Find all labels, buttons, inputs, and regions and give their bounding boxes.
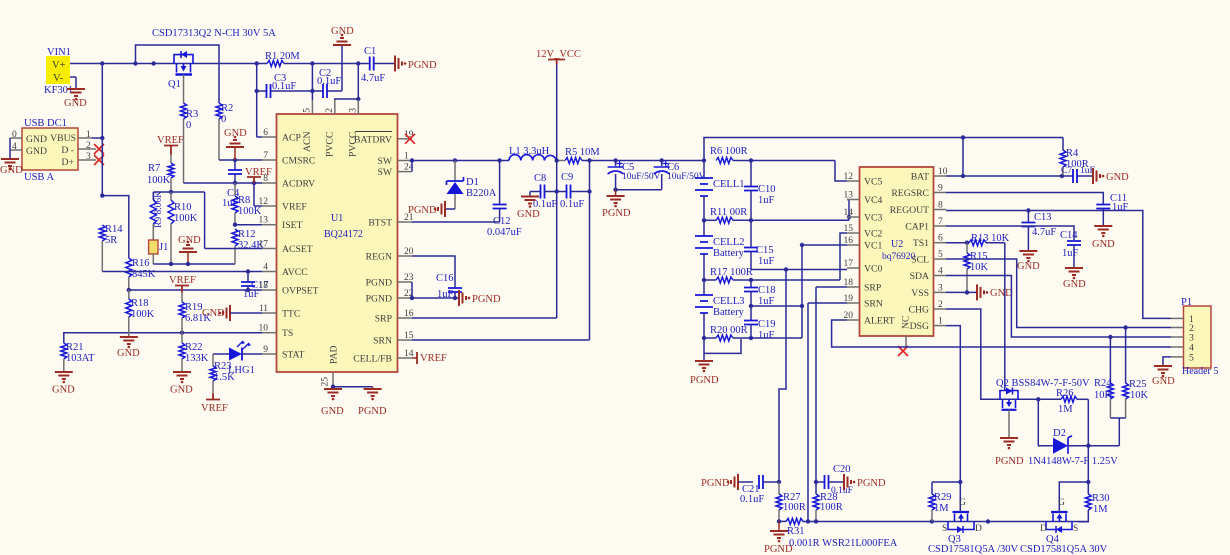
svg-text:R9 8.06K: R9 8.06K xyxy=(154,191,164,228)
wire SCL to header xyxy=(946,259,1171,330)
svg-text:CSD17581Q5A 30V: CSD17581Q5A 30V xyxy=(1020,544,1108,555)
no-connect X on USB pin3 xyxy=(94,155,104,165)
svg-text:GND: GND xyxy=(52,385,75,396)
svg-text:VREF: VREF xyxy=(157,135,184,146)
svg-text:12V_VCC: 12V_VCC xyxy=(536,49,581,60)
svg-text:ACSET: ACSET xyxy=(282,244,313,255)
svg-text:GND: GND xyxy=(1017,261,1040,272)
svg-text:R22: R22 xyxy=(185,342,203,353)
svg-text:SRP: SRP xyxy=(375,314,392,325)
wire D2 anode feed xyxy=(1038,399,1053,445)
power GND at C7 xyxy=(1093,168,1129,184)
power VREF below R23 xyxy=(201,394,228,415)
svg-text:1M: 1M xyxy=(934,503,949,514)
svg-text:103AT: 103AT xyxy=(66,353,95,364)
wire VC0 line from C15 xyxy=(751,267,847,271)
wire CMSRC net from R2 xyxy=(219,158,262,162)
svg-text:5R: 5R xyxy=(105,235,117,246)
transistor Q1 CSD17313Q2 xyxy=(152,28,276,90)
capacitor C10 xyxy=(744,161,776,221)
svg-text:0.1uF: 0.1uF xyxy=(560,199,584,210)
svg-text:5: 5 xyxy=(938,250,943,260)
svg-text:VIN1: VIN1 xyxy=(47,47,71,58)
resistor R19 xyxy=(179,293,211,333)
svg-text:R16: R16 xyxy=(132,258,150,269)
svg-text:3: 3 xyxy=(938,283,943,293)
svg-text:R4: R4 xyxy=(1066,148,1079,159)
svg-text:VREF: VREF xyxy=(169,275,196,286)
svg-text:PGND: PGND xyxy=(472,294,501,305)
svg-text:R19: R19 xyxy=(185,302,203,313)
capacitor C14 xyxy=(1060,230,1081,267)
resistor R4 100R xyxy=(1060,138,1089,177)
inductor L1 3.3uH xyxy=(509,146,565,161)
power 12V_VCC xyxy=(536,49,581,65)
svg-text:100R: 100R xyxy=(820,502,843,513)
ground GND at C8 xyxy=(517,192,540,221)
wire R7 node xyxy=(153,190,204,249)
svg-text:133K: 133K xyxy=(185,353,209,364)
power VREF above R19 xyxy=(169,275,196,293)
svg-text:SRN: SRN xyxy=(373,336,392,347)
svg-text:KF301: KF301 xyxy=(44,85,73,96)
svg-text:CSD17313Q2 N-CH 30V 5A: CSD17313Q2 N-CH 30V 5A xyxy=(152,28,276,39)
svg-text:1: 1 xyxy=(404,152,409,162)
svg-text:GND: GND xyxy=(517,209,540,220)
wire divider ground bus xyxy=(153,262,235,266)
svg-text:R8: R8 xyxy=(238,195,250,206)
svg-text:R23: R23 xyxy=(214,361,232,372)
svg-text:ACDRV: ACDRV xyxy=(282,179,315,190)
svg-text:10K: 10K xyxy=(1094,390,1113,401)
svg-text:23: 23 xyxy=(404,273,414,283)
svg-text:9: 9 xyxy=(263,345,268,355)
svg-text:J1: J1 xyxy=(159,242,168,253)
svg-text:USB A: USB A xyxy=(24,172,54,183)
svg-text:6.81K: 6.81K xyxy=(185,313,211,324)
capacitor C18 xyxy=(744,280,776,307)
resistor R3 xyxy=(181,75,199,184)
wire VBUS to rail and R14 xyxy=(92,64,105,198)
svg-text:GND: GND xyxy=(1063,279,1086,290)
wire ACDRV net from R3 xyxy=(184,181,263,185)
svg-text:VC5: VC5 xyxy=(864,177,882,188)
wire R13 to Q2 column xyxy=(1004,243,1006,391)
capacitor C13 xyxy=(1021,211,1056,251)
ground GND at USB xyxy=(0,138,23,176)
capacitor C6 10uF/50V xyxy=(654,161,706,190)
svg-text:D2: D2 xyxy=(1053,428,1066,439)
resistor R13 10K xyxy=(969,233,1010,246)
wire CAP1 to C14 xyxy=(946,226,1074,240)
overline on BATDRV pin name xyxy=(355,131,392,133)
ground GND at U1 PAD xyxy=(321,385,344,418)
svg-text:VREF: VREF xyxy=(420,353,447,364)
no-connect X on U2 NC xyxy=(898,346,908,356)
svg-text:CELL2: CELL2 xyxy=(713,237,745,248)
svg-text:C16: C16 xyxy=(436,273,454,284)
svg-text:D1: D1 xyxy=(466,177,479,188)
wire REGN to C16 xyxy=(412,256,455,287)
wire Q2 drain to R26 xyxy=(1036,397,1040,401)
svg-text:5: 5 xyxy=(302,108,312,113)
svg-text:PGND: PGND xyxy=(366,294,392,305)
svg-text:ACN: ACN xyxy=(302,132,313,152)
wire battery top rail xyxy=(702,135,1063,162)
wire C5-C6 ground link xyxy=(613,188,661,192)
wire REGSRC to C11 xyxy=(946,193,1103,205)
svg-text:R29: R29 xyxy=(934,492,952,503)
wire VC4 VC3 feed xyxy=(847,200,851,221)
resistor R22 xyxy=(179,333,209,371)
transistor Q2 BSS84W xyxy=(996,378,1090,410)
svg-text:GND: GND xyxy=(64,98,87,109)
svg-text:D: D xyxy=(1040,524,1047,534)
svg-text:ISET: ISET xyxy=(282,220,303,231)
svg-text:G: G xyxy=(959,498,966,508)
svg-text:7: 7 xyxy=(938,217,943,227)
resistor R18 xyxy=(126,290,155,336)
wire SRN down xyxy=(806,303,847,524)
svg-text:2: 2 xyxy=(325,108,335,113)
svg-text:VSS: VSS xyxy=(911,288,929,299)
svg-text:STAT: STAT xyxy=(282,350,304,361)
svg-text:0.047uF: 0.047uF xyxy=(487,227,522,238)
svg-text:PGND: PGND xyxy=(701,478,730,489)
svg-text:R12: R12 xyxy=(238,229,256,240)
ground GND below C14 xyxy=(1063,268,1086,290)
capacitor C9 xyxy=(560,172,592,210)
transistor Q3 CSD17581Q5A xyxy=(928,482,1019,555)
svg-text:R14: R14 xyxy=(105,224,123,235)
svg-text:GND: GND xyxy=(990,288,1013,299)
power VREF above R7 xyxy=(157,135,184,155)
power PGND at U1 PAD xyxy=(333,387,387,417)
connector VIN1 (KF301) xyxy=(44,47,73,96)
wire TS1 net xyxy=(946,241,969,245)
wire PVCC pin5 column xyxy=(310,61,314,100)
svg-text:CAP1: CAP1 xyxy=(905,222,929,233)
svg-text:R20 00R: R20 00R xyxy=(710,325,748,336)
svg-text:6: 6 xyxy=(263,128,268,138)
svg-text:VC1: VC1 xyxy=(864,241,882,252)
svg-text:R10: R10 xyxy=(174,202,192,213)
svg-text:CELL/FB: CELL/FB xyxy=(353,354,392,365)
svg-text:1M: 1M xyxy=(1058,404,1073,415)
svg-text:17: 17 xyxy=(259,240,269,250)
capacitor C8 xyxy=(530,173,567,210)
capacitor C15 xyxy=(744,220,775,269)
svg-text:V-: V- xyxy=(53,73,64,84)
resistor R7 xyxy=(147,155,174,193)
ground GND below C13 xyxy=(1017,251,1040,272)
svg-text:PGND: PGND xyxy=(602,208,631,219)
svg-text:D+: D+ xyxy=(62,157,74,168)
svg-text:PGND: PGND xyxy=(764,544,793,555)
svg-text:100K: 100K xyxy=(174,213,198,224)
svg-text:CHG: CHG xyxy=(909,305,929,316)
svg-text:100R: 100R xyxy=(783,502,806,513)
svg-text:VREF: VREF xyxy=(201,403,228,414)
svg-text:P1: P1 xyxy=(1181,297,1192,308)
svg-text:S: S xyxy=(1073,524,1078,534)
svg-text:R18: R18 xyxy=(131,298,149,309)
resistor R8 xyxy=(232,183,262,225)
svg-text:C1: C1 xyxy=(364,46,376,57)
svg-text:0: 0 xyxy=(186,120,191,131)
svg-text:R25: R25 xyxy=(1129,379,1147,390)
svg-text:PGND: PGND xyxy=(995,456,1024,467)
wire ALERT to header pin4 xyxy=(832,320,1171,347)
resistor R2 xyxy=(216,103,233,160)
svg-text:REGN: REGN xyxy=(366,252,392,263)
wire SRP to R28 xyxy=(814,287,847,494)
resistor R1 20M xyxy=(265,51,358,67)
wire top loop to Q1 drain xyxy=(136,45,220,103)
connector P1 Header 5 xyxy=(1171,297,1218,377)
capacitor C4 xyxy=(222,160,242,209)
svg-text:BAT: BAT xyxy=(911,172,929,183)
power PGND at C16 xyxy=(459,290,501,306)
power PGND at Q2 gate xyxy=(995,410,1024,467)
ground GND at VIN1 xyxy=(64,77,87,109)
svg-text:PVCC: PVCC xyxy=(325,132,336,157)
power PGND below battery xyxy=(690,361,719,386)
capacitor C7 xyxy=(1061,166,1095,183)
svg-text:SW: SW xyxy=(377,167,392,178)
wire OVPSET net xyxy=(127,288,262,292)
svg-text:S: S xyxy=(942,524,947,534)
svg-text:VBUS: VBUS xyxy=(50,133,76,144)
svg-text:R3: R3 xyxy=(186,109,198,120)
svg-text:0.001R WSR21L000FEA: 0.001R WSR21L000FEA xyxy=(789,538,898,549)
svg-text:4.7uF: 4.7uF xyxy=(361,73,385,84)
wire battery bottom jog xyxy=(704,338,741,360)
svg-text:USB DC1: USB DC1 xyxy=(24,118,67,129)
svg-text:B220A: B220A xyxy=(466,188,497,199)
power GND sideways at TTC xyxy=(202,305,262,321)
svg-text:14: 14 xyxy=(844,208,854,218)
svg-text:OVPSET: OVPSET xyxy=(282,286,319,297)
capacitor C19 xyxy=(744,306,776,341)
svg-text:CELL3: CELL3 xyxy=(713,296,745,307)
svg-text:GND: GND xyxy=(0,165,23,176)
svg-text:4: 4 xyxy=(938,267,943,277)
ground GND below R18 xyxy=(117,337,140,359)
svg-text:12: 12 xyxy=(844,172,854,182)
svg-text:PGND: PGND xyxy=(408,60,437,71)
svg-text:SCL: SCL xyxy=(911,255,929,266)
wire VSS net xyxy=(946,290,976,294)
svg-text:1uF: 1uF xyxy=(758,195,775,206)
battery CELL2 xyxy=(695,236,745,295)
wire to R16 top xyxy=(102,196,129,258)
wire PGND pins 22-23 xyxy=(410,282,458,300)
resistor R5 10M xyxy=(565,147,704,164)
resistor R25 10K xyxy=(1123,328,1149,419)
svg-text:GND: GND xyxy=(1106,172,1129,183)
wire PVCC pins 2-3 jog xyxy=(335,61,361,101)
wire ISET net xyxy=(233,223,262,227)
resistor R9 xyxy=(150,191,164,240)
svg-text:17: 17 xyxy=(844,259,854,269)
svg-text:CMSRC: CMSRC xyxy=(282,156,315,167)
resistor R28 100R xyxy=(813,492,843,521)
capacitor C21 xyxy=(740,475,779,505)
svg-text:0.1uF: 0.1uF xyxy=(740,494,764,505)
svg-text:10K: 10K xyxy=(1130,390,1149,401)
svg-text:VC2: VC2 xyxy=(864,229,882,240)
svg-text:G: G xyxy=(1058,498,1065,508)
resistor R30 1M xyxy=(1078,482,1110,522)
svg-text:TS: TS xyxy=(282,328,293,339)
wire R26 to D2 cathode node xyxy=(1068,399,1119,448)
svg-text:C20: C20 xyxy=(833,464,851,475)
resistor R21 xyxy=(61,342,95,371)
svg-text:10: 10 xyxy=(259,324,269,334)
resistor R12 xyxy=(232,229,264,264)
resistor R16 xyxy=(126,258,156,290)
resistor R29 1M xyxy=(929,480,963,522)
wire C18-C19 mid tap xyxy=(749,304,804,308)
svg-text:0: 0 xyxy=(221,114,226,125)
capacitor C20 xyxy=(816,464,853,496)
svg-text:TTC: TTC xyxy=(282,309,300,320)
resistor R6 100R xyxy=(710,146,835,164)
power PGND below C5 xyxy=(602,190,631,219)
capacitor C2 xyxy=(312,68,342,98)
svg-text:11: 11 xyxy=(259,304,268,314)
svg-text:GND: GND xyxy=(1152,376,1175,387)
ground GND below R21 xyxy=(52,372,75,396)
capacitor C17 xyxy=(241,272,269,301)
svg-text:1uF: 1uF xyxy=(1112,202,1129,213)
no-connect X on BATDRV xyxy=(405,134,415,144)
op-amp U2 bq76920 monitor IC xyxy=(844,167,948,348)
svg-text:Battery: Battery xyxy=(713,307,745,318)
svg-text:REGOUT: REGOUT xyxy=(890,205,929,216)
wire V+ rail xyxy=(70,61,267,65)
capacitor C11 xyxy=(1096,193,1128,225)
svg-text:10uF/50V: 10uF/50V xyxy=(667,172,706,182)
wire R17 line xyxy=(702,267,840,283)
diode D2 1N4148W xyxy=(1028,428,1118,467)
svg-text:C9: C9 xyxy=(561,172,573,183)
svg-text:NC: NC xyxy=(902,316,912,329)
svg-text:D -: D - xyxy=(61,145,74,156)
ground GND at R10 bus xyxy=(178,235,201,264)
svg-text:TS1: TS1 xyxy=(913,238,929,249)
svg-text:SDA: SDA xyxy=(910,271,929,282)
svg-text:8: 8 xyxy=(938,201,943,211)
svg-text:BATDRV: BATDRV xyxy=(354,134,392,145)
svg-text:18: 18 xyxy=(259,281,269,291)
svg-text:Header 5: Header 5 xyxy=(1182,366,1218,377)
svg-text:R17 100R: R17 100R xyxy=(710,267,753,278)
svg-text:PAD: PAD xyxy=(329,346,340,365)
svg-text:GND: GND xyxy=(26,134,47,145)
ground GND below C11 xyxy=(1092,226,1115,250)
wire R20 line xyxy=(702,325,802,341)
svg-text:GND: GND xyxy=(321,406,344,417)
wire 12V_VCC column to SRP xyxy=(555,65,559,319)
svg-text:100K: 100K xyxy=(147,175,171,186)
svg-text:SRN: SRN xyxy=(864,299,883,310)
svg-text:C8: C8 xyxy=(534,173,546,184)
svg-text:6: 6 xyxy=(938,234,943,244)
svg-text:GND: GND xyxy=(26,146,47,157)
svg-text:1M: 1M xyxy=(1093,504,1108,515)
svg-text:R15: R15 xyxy=(970,251,988,262)
svg-text:25: 25 xyxy=(321,377,331,387)
svg-text:PVCC: PVCC xyxy=(348,132,359,157)
svg-text:SRP: SRP xyxy=(864,283,881,294)
svg-text:1N4148W-7-F 1.25V: 1N4148W-7-F 1.25V xyxy=(1028,456,1118,467)
svg-text:4: 4 xyxy=(263,263,268,273)
connector USB DC1 xyxy=(10,118,96,183)
transistor Q4 CSD17581Q5A xyxy=(1020,498,1108,555)
power PGND right of C1 xyxy=(395,56,437,72)
svg-text:REGSRC: REGSRC xyxy=(891,188,929,199)
ground GND above C4 xyxy=(224,128,247,160)
diode D1 B220A xyxy=(447,161,497,210)
svg-text:1uF: 1uF xyxy=(1062,248,1079,259)
resistor R14 xyxy=(99,224,123,272)
svg-text:SW: SW xyxy=(377,156,392,167)
svg-text:AVCC: AVCC xyxy=(282,267,308,278)
wire VC2 feed xyxy=(840,233,847,280)
wire CHG to Q2 xyxy=(946,309,1061,399)
resistor R26 1M xyxy=(1056,388,1088,415)
svg-text:10K: 10K xyxy=(970,262,989,273)
wire DSG node to gates xyxy=(1059,446,1090,507)
power VREF at ACDRV xyxy=(245,167,272,183)
svg-text:D: D xyxy=(975,524,982,534)
svg-text:100K: 100K xyxy=(131,309,155,320)
svg-text:7: 7 xyxy=(263,151,268,161)
svg-text:C19: C19 xyxy=(758,319,776,330)
wire BAT feed xyxy=(946,138,1064,179)
svg-text:0.1uF: 0.1uF xyxy=(317,76,341,87)
capacitor C5 10uF/50V xyxy=(608,161,661,190)
wire REGOUT to P1 pin1 xyxy=(946,208,1171,318)
svg-text:Battery: Battery xyxy=(713,248,745,259)
no-connect X on USB pin2 xyxy=(94,144,104,154)
power PGND left of C21 xyxy=(701,474,753,490)
svg-text:1.5K: 1.5K xyxy=(214,372,235,383)
svg-text:13: 13 xyxy=(259,216,269,226)
svg-text:4.7uF: 4.7uF xyxy=(1032,227,1056,238)
svg-text:13: 13 xyxy=(844,191,854,201)
wire SDA to header xyxy=(946,276,1171,340)
wire R24 R25 bottoms to D2 node xyxy=(1110,418,1125,446)
capacitor C12 xyxy=(487,161,522,239)
svg-text:PGND: PGND xyxy=(857,478,886,489)
svg-text:16: 16 xyxy=(844,236,854,246)
wire ACSET net xyxy=(205,248,262,250)
wire VREF pin12 feed xyxy=(254,183,262,206)
svg-text:VC4: VC4 xyxy=(864,195,882,206)
svg-text:U1: U1 xyxy=(331,213,343,224)
svg-text:VREF: VREF xyxy=(282,202,307,213)
svg-text:U2: U2 xyxy=(891,239,903,250)
resistor R24 10K xyxy=(1094,337,1113,418)
svg-text:Q2 BSS84W-7-F-50V: Q2 BSS84W-7-F-50V xyxy=(996,378,1090,389)
svg-text:GND: GND xyxy=(170,385,193,396)
svg-text:C10: C10 xyxy=(758,184,776,195)
svg-text:2: 2 xyxy=(938,300,943,310)
resistor R10 xyxy=(168,192,198,264)
